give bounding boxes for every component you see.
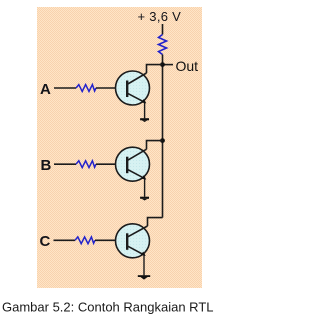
wire Q2 collector to rail [147, 141, 163, 150]
wire collector rail upper segment [162, 65, 164, 141]
wire input C [54, 239, 76, 241]
wire R2 to Q1 base [96, 87, 128, 89]
wire R4 to Q3 base [95, 239, 128, 241]
ground Q1 emitter [140, 118, 149, 122]
svg-text:Out: Out [176, 58, 199, 74]
wire supply to R1 [162, 24, 164, 35]
wire collector rail lower segment [162, 141, 164, 218]
wire R1 to Out node [162, 55, 164, 65]
svg-text:B: B [41, 157, 52, 174]
svg-text:A: A [40, 81, 51, 98]
node Q2 collector junction [160, 138, 165, 143]
wire input A [54, 87, 76, 89]
wire input B [54, 163, 76, 165]
node Out junction [160, 62, 165, 67]
wire Q1 emitter to ground [144, 103, 146, 118]
svg-text:Gambar 5.2: Contoh Rangkaian R: Gambar 5.2: Contoh Rangkaian RTL [2, 300, 214, 315]
svg-text:C: C [40, 233, 51, 250]
transistor Q2 [116, 147, 150, 181]
wire Q3 emitter to ground [143, 256, 145, 276]
wire Q1 collector to Out node [147, 65, 163, 73]
resistor R1 pull-up [159, 35, 167, 55]
resistor R2 input A [76, 85, 96, 92]
transistor Q1 [116, 71, 150, 105]
resistor R4 input C [75, 237, 95, 244]
wire Q2 emitter to ground [144, 179, 146, 197]
ground Q3 emitter [138, 275, 150, 279]
svg-text:+ 3,6 V: + 3,6 V [138, 9, 182, 24]
resistor R3 input B [76, 161, 96, 168]
circuit panel background [37, 7, 202, 288]
wire R3 to Q2 base [96, 163, 128, 165]
wire Q3 collector to rail corner [148, 218, 163, 226]
ground Q2 emitter [140, 197, 149, 201]
transistor Q3 [116, 224, 150, 258]
wire Out node to Out label [163, 64, 174, 66]
